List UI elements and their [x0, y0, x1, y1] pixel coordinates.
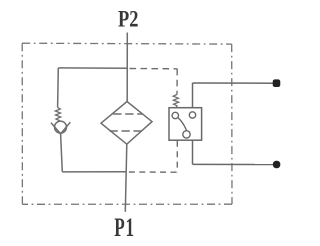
- switch contact upper-right: [189, 112, 195, 118]
- wire: P1 outlet stub: [125, 144, 127, 212]
- pilot sensing line downstream (dashed vertical): [176, 141, 178, 172]
- check valve seat: [51, 122, 70, 134]
- wire: check valve branch, upper vertical: [57, 68, 60, 108]
- outer enclosure boundary (dash-dot box): [22, 43, 232, 204]
- wire: switch to lower terminal, vertical: [192, 140, 194, 164]
- wire: switch to lower terminal, horizontal: [193, 163, 274, 165]
- wire: check valve branch, lower vertical: [61, 134, 63, 172]
- switch lever: [178, 118, 186, 131]
- switch contact lower (movable): [183, 131, 190, 138]
- filter mesh dash lower: [110, 130, 146, 132]
- pilot sensing line downstream (dashed horizontal): [128, 171, 177, 173]
- wire: upper branch to check valve: [58, 67, 127, 69]
- wire: lower branch back to main line: [62, 171, 126, 173]
- terminal 1 (upper): [273, 79, 281, 87]
- indicator spring: [173, 95, 178, 108]
- check valve spring: [55, 107, 60, 120]
- svg-text:P1: P1: [114, 212, 135, 242]
- terminal 2 (lower): [273, 161, 280, 168]
- check valve ball: [55, 121, 67, 133]
- wire: switch to upper terminal, horizontal: [193, 82, 274, 84]
- switch contact upper-left: [172, 112, 178, 118]
- filter element (diamond): [101, 102, 152, 145]
- pressure switch body: [169, 108, 202, 141]
- pilot sensing line upstream (dashed vertical): [176, 69, 178, 95]
- wire: P2 inlet stub: [126, 33, 128, 102]
- filter mesh dash upper: [113, 113, 142, 115]
- svg-text:P2: P2: [118, 6, 138, 33]
- pilot sensing line upstream (dashed horizontal): [130, 68, 178, 70]
- wire: switch to upper terminal, vertical: [192, 83, 194, 108]
